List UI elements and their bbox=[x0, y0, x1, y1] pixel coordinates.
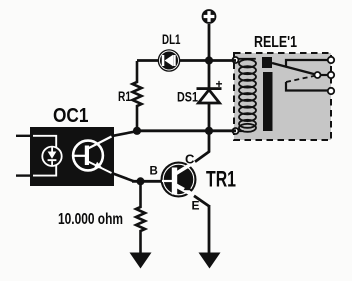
relay core bar bbox=[263, 72, 273, 131]
OC1 phototransistor base bar bbox=[85, 146, 89, 166]
relay armature block bbox=[262, 57, 272, 68]
OC1 internal LED bracket top bbox=[33, 136, 56, 148]
OC1 left lead top bbox=[16, 135, 31, 137]
wire +V vertical top bbox=[208, 24, 211, 88]
svg-text:E: E bbox=[192, 199, 200, 213]
LED DL1 bbox=[159, 50, 179, 70]
relay coil terminal top left bbox=[233, 57, 239, 63]
relay contact: arm pivot circle bbox=[315, 72, 321, 78]
node junction at +V / DL1 / coil bbox=[205, 56, 213, 64]
relay contact: moving arm bbox=[272, 63, 318, 75]
svg-text:B: B bbox=[150, 166, 158, 178]
wire OC1 emitter to base row bbox=[113, 174, 134, 182]
OC1 left lead bottom bbox=[16, 174, 31, 176]
svg-text:C: C bbox=[185, 152, 195, 167]
OC1 phototransistor base lead bbox=[74, 155, 86, 157]
ground left bbox=[130, 253, 152, 269]
relay coil terminal bottom left bbox=[233, 128, 239, 134]
svg-text:DL1: DL1 bbox=[162, 32, 181, 47]
OC1 internal LED circle bbox=[42, 147, 61, 166]
power supply + terminal bbox=[202, 9, 217, 24]
svg-text:10.000 ohm: 10.000 ohm bbox=[58, 211, 123, 228]
relay terminal top right bbox=[328, 57, 334, 63]
wire DL1 row bbox=[137, 59, 159, 62]
transistor TR1 bbox=[161, 161, 197, 198]
diode DS1 bbox=[197, 87, 222, 103]
wire collector node row bbox=[137, 129, 236, 132]
resistor 10.000 ohm bbox=[136, 183, 145, 253]
relay contact: top fixed bbox=[286, 60, 331, 66]
OC1 phototransistor emitter arrow bbox=[94, 162, 103, 169]
OC1 internal LED bracket bottom bbox=[33, 165, 56, 176]
relay coil bbox=[236, 59, 256, 132]
node junction main vertical / coil bottom bbox=[205, 127, 213, 135]
wire DS1 anode to node bbox=[208, 102, 211, 152]
relay contact: dashed alternate position bbox=[286, 76, 315, 82]
svg-text:OC1: OC1 bbox=[53, 105, 89, 127]
ground right bbox=[199, 253, 221, 269]
wire TR1 collector bbox=[195, 151, 210, 162]
relay terminal middle right bbox=[328, 72, 334, 78]
resistor R1 bbox=[133, 61, 142, 130]
relay contact: bottom fixed bbox=[286, 82, 331, 91]
wire base row bbox=[132, 180, 161, 183]
OC1 internal LED diode bbox=[48, 147, 57, 166]
OC1 phototransistor collector stroke bbox=[88, 137, 112, 149]
wire emitter to ground bbox=[208, 205, 211, 253]
relay terminal bottom right bbox=[328, 88, 334, 94]
svg-text:+: + bbox=[216, 77, 223, 91]
svg-text:TR1: TR1 bbox=[206, 167, 236, 192]
node junction base / 10k bbox=[137, 177, 145, 185]
relay RELE'1 body bbox=[234, 53, 331, 140]
svg-text:R1: R1 bbox=[118, 89, 131, 104]
OC1 phototransistor emitter stroke bbox=[88, 162, 112, 174]
wire arm to terminal bbox=[321, 74, 332, 76]
OC1 phototransistor circle bbox=[73, 141, 103, 171]
wire TR1 emitter bbox=[194, 196, 210, 207]
svg-text:RELE'1: RELE'1 bbox=[254, 34, 297, 51]
optocoupler OC1 body bbox=[30, 127, 114, 186]
node junction R1/OC1 collector bbox=[133, 127, 141, 135]
wire OC1 collector to node bbox=[113, 131, 139, 136]
svg-text:DS1: DS1 bbox=[177, 89, 198, 105]
